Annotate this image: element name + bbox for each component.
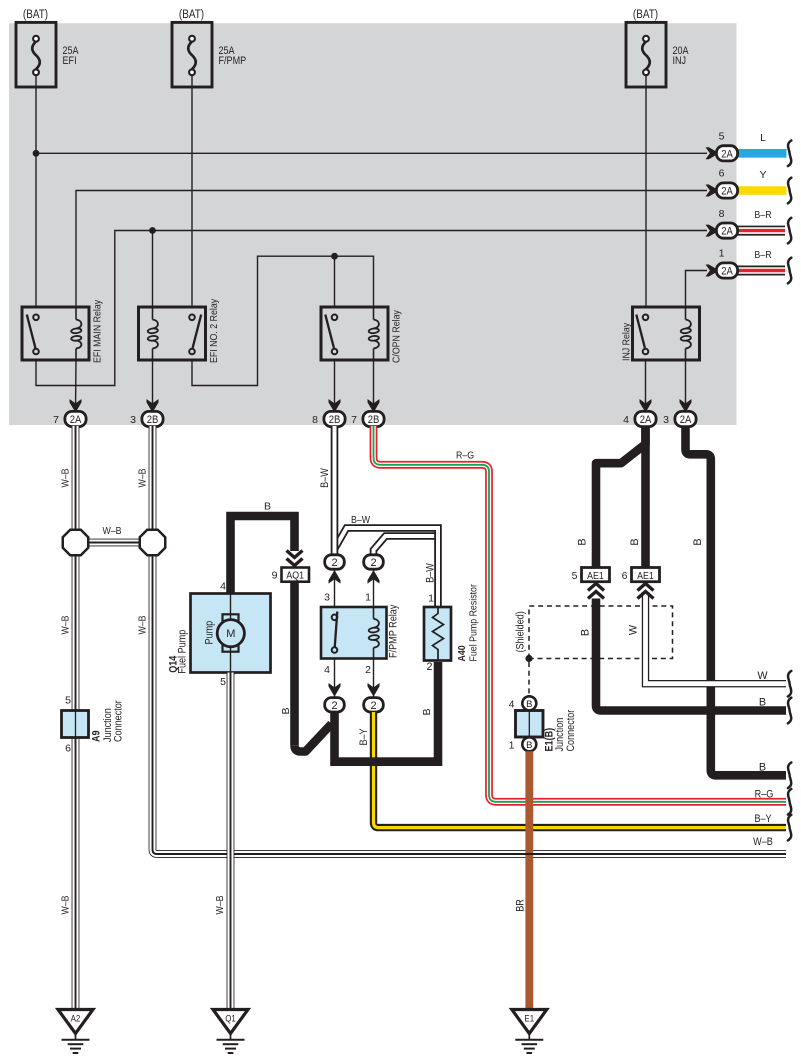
connector 2 (pin2) oval lower right [364,698,384,712]
node shield drain junction [525,655,532,662]
wire pin3 link [334,569,336,607]
connector 2A pin 3 [675,411,696,426]
svg-text:2: 2 [426,661,432,673]
connector 2A pin 5 arrow [706,147,720,159]
svg-text:2B: 2B [368,414,380,426]
connector 2A pin 1 [716,263,737,278]
svg-text:B–W: B–W [351,514,370,526]
wire W-B from 7 2A to ground A2 [72,426,80,1009]
svg-text:BR: BR [515,899,527,912]
svg-text:5: 5 [65,695,71,707]
svg-text:AE1: AE1 [637,570,654,582]
wire Y (yellow) to harness [737,186,787,195]
svg-text:L: L [760,132,766,144]
svg-text:AE1: AE1 [587,570,604,582]
wire B-R to harness (pin 8) [737,226,785,236]
octagon junction right [140,530,166,556]
connector 3 2A arrow [680,399,692,413]
svg-text:INJ: INJ [673,55,687,67]
connector 2A pin 6 arrow [706,185,720,197]
svg-text:W: W [757,670,768,682]
arrow 5 AE1 [588,584,604,591]
fuse 25A F/PMP (BAT) [191,75,193,87]
svg-text:INJ Relay: INJ Relay [621,322,633,361]
motor brush top [223,614,239,621]
connector 8 2B arrow [329,399,341,413]
svg-text:W: W [628,624,640,635]
fuse 25A EFI (BAT) [35,75,37,87]
wire W-B from 3 2B to right edge [153,426,787,854]
svg-text:5: 5 [572,570,578,582]
wire B-R to harness (pin 1) [737,266,785,276]
svg-text:2A: 2A [721,186,733,198]
svg-text:F/PMP: F/PMP [219,55,247,67]
component A40 Fuel Pump Resistor box [424,607,451,661]
svg-text:A9: A9 [90,730,102,742]
wire B bottom horizontal over B-Y [335,757,439,766]
svg-text:Pump: Pump [204,621,216,645]
svg-text:B: B [580,629,592,636]
svg-text:1: 1 [428,593,434,605]
svg-text:7: 7 [53,414,59,426]
svg-text:B: B [526,699,532,710]
connector E1(B) junction box [516,711,544,738]
motor brush bottom [223,645,239,652]
wire EFI MAIN relay coil to connector 6 2A [76,191,707,308]
wire B-W branch pin1 coil [374,536,437,557]
wire pin4 link [334,659,336,698]
relay EFI NO.2 coil [152,307,154,320]
fuse 20A INJ (BAT) [645,75,647,87]
svg-text:B: B [759,761,766,773]
connector 2A pin 4 [635,411,656,426]
continuation squiggle Y [788,178,791,204]
wire bus to connector 5 2A [36,152,707,154]
connector 4 2A arrow [640,399,652,413]
svg-text:3: 3 [130,414,136,426]
svg-text:AQ1: AQ1 [286,570,304,582]
svg-text:4: 4 [509,699,515,711]
svg-text:Q1: Q1 [225,1014,236,1025]
arrow 6 AE1 [638,584,654,591]
fuel pump internal lead bottom [230,647,232,673]
connector E1(B) pin 4 circle [522,696,536,710]
connector A9 internal wire [75,711,77,738]
svg-text:R–G: R–G [456,450,474,462]
svg-text:B–Y: B–Y [754,813,771,825]
svg-text:2A: 2A [680,414,692,426]
svg-text:4: 4 [220,581,226,593]
wire branch to C/OPN relay switch [334,256,336,307]
wire B from 3 2A to right edge [686,426,787,775]
wire B fuel pump feed via AQ1 [231,516,295,594]
arrow down pin4 [329,683,341,697]
svg-text:C/OPN Relay: C/OPN Relay [391,309,403,363]
wire B from 4 2A to 6 AE1 [641,426,650,568]
wire INJ switch to connector 4 2A [645,360,647,412]
connector 2A pin 8 arrow [706,225,720,237]
svg-text:4: 4 [623,414,629,426]
svg-text:B: B [629,538,641,545]
svg-text:EFI: EFI [63,55,77,67]
continuation squiggle W [788,671,791,697]
svg-text:4: 4 [324,664,330,676]
arrow down pin2 [368,683,380,697]
relay INJ Relay box [633,307,700,360]
svg-text:1: 1 [365,592,371,604]
arrow up pin3 [329,570,341,584]
svg-text:2A: 2A [721,266,733,278]
svg-text:Fuel Pump Resistor: Fuel Pump Resistor [468,584,480,662]
svg-text:EFI NO. 2 Relay: EFI NO. 2 Relay [208,298,220,363]
wire B-W branch to resistor pin 1 [335,528,439,606]
svg-text:A2: A2 [71,1014,81,1025]
svg-text:W–B: W–B [60,895,72,914]
wire B-W from 8 2B to F/PMP relay pin 3 [331,426,339,555]
svg-text:8: 8 [312,414,318,426]
svg-text:B–R: B–R [754,249,772,261]
svg-text:Connector: Connector [112,700,124,742]
svg-text:EFI MAIN Relay: EFI MAIN Relay [92,299,104,363]
svg-text:W–B: W–B [753,836,773,848]
wire INJ coil to connector 3 2A [685,360,687,412]
svg-text:A40: A40 [456,645,468,661]
continuation squiggle B low [788,763,791,789]
relay EFI MAIN switch contact [33,315,39,321]
relay INJ coil [685,307,687,320]
relay F/PMP switch contact [332,615,338,621]
ground A2 [58,1010,93,1034]
svg-text:B–W: B–W [319,467,331,487]
node junction at EFI NO.2 coil branch [149,227,156,234]
svg-text:W–B: W–B [214,895,226,914]
motor M circle [217,620,244,647]
svg-text:(BAT): (BAT) [633,9,658,21]
svg-text:6: 6 [622,570,628,582]
wire EFI fuse to EFI MAIN relay switch [35,87,37,307]
svg-text:2: 2 [331,557,337,569]
component Q14 Fuel Pump box [191,594,271,673]
connector A9 junction box [62,711,89,738]
svg-text:Fuel Pump: Fuel Pump [177,630,189,674]
node junction at C/OPN switch branch [331,253,338,260]
octagon junction left [63,530,89,556]
shield box (Shielded) [529,606,673,659]
relay EFI NO. 2 Relay box [139,307,206,360]
svg-text:F/PMP Relay: F/PMP Relay [388,604,400,658]
connector 2A pin 6 [716,183,737,198]
svg-text:2: 2 [370,557,376,569]
wire R-G from 7 2B to right edge [374,426,787,802]
svg-text:2B: 2B [147,414,159,426]
connector 3 2B arrow [147,399,159,413]
svg-text:2A: 2A [70,414,82,426]
relay EFI MAIN coil [75,307,77,320]
svg-text:5: 5 [719,131,725,143]
relay EFI NO.2 switch contact [189,315,195,321]
continuation squiggle B mid [788,698,791,724]
continuation squiggle B-R 8 [788,218,791,244]
svg-text:B: B [577,538,589,545]
wire B from 4 2A to 5 AE1 and right edge [596,426,646,568]
connector 2A pin 7 [65,411,86,426]
relay block gray panel [9,23,737,425]
svg-text:R–G: R–G [755,788,774,800]
svg-text:B–Y: B–Y [358,728,370,745]
connector 2 (pin1) oval upper right [364,555,384,569]
wire pin1 link [373,569,375,607]
connector 7 2A arrow [70,399,82,413]
svg-text:6: 6 [719,168,725,180]
svg-text:W–B: W–B [102,525,121,537]
svg-text:B: B [280,707,292,714]
svg-text:B: B [759,696,766,708]
connector 7 2B arrow [368,399,380,413]
wire EFI NO.2 coil to connector 3 2B [152,360,154,412]
svg-text:B: B [526,740,532,751]
wire B relay pin4 to resistor pin2 [335,662,439,762]
wire EFI NO.2 relay switch to C/OPN relay [192,256,374,385]
node junction at EFI fuse line [33,150,40,157]
relay C/OPN switch contact [332,315,338,321]
continuation squiggle L [788,141,791,167]
wire L (blue) to harness [737,149,787,158]
svg-text:(BAT): (BAT) [179,9,204,21]
svg-text:E1: E1 [524,1014,534,1025]
resistor zigzag [433,607,444,661]
wire W-B pump to ground Q1 [227,673,235,1010]
relay INJ switch contact [643,315,649,321]
continuation squiggle R-G [788,789,791,815]
wire shield drain dashed [528,662,530,695]
relay C/OPN Relay box [321,307,388,360]
wire C/OPN switch to connector 8 2B [334,360,336,412]
connector E1(B) pin 1 circle [522,737,536,751]
svg-text:1: 1 [509,740,515,752]
svg-text:B: B [421,708,433,715]
fuel pump internal lead top [230,594,232,621]
svg-text:1: 1 [719,248,725,260]
wire BR from E1(B) to ground E1 [525,751,533,1009]
connector AQ1 pin 9 box [282,568,310,582]
connector 2B pin 3 [142,411,163,426]
connector 2B pin 7 [363,411,384,426]
relay C/OPN coil [373,307,375,320]
wire INJ fuse to INJ relay switch [645,87,647,307]
svg-text:2B: 2B [329,414,341,426]
arrow up pin1 [368,570,380,584]
svg-text:Y: Y [759,169,766,181]
svg-text:B: B [692,538,704,545]
svg-text:7: 7 [351,414,357,426]
connector 2A pin 5 [716,146,737,161]
ground E1 [512,1010,547,1034]
svg-text:B–R: B–R [754,209,772,221]
connector 6 AE1 box [632,568,660,582]
svg-text:9: 9 [272,570,278,582]
svg-text:2A: 2A [721,226,733,238]
svg-text:6: 6 [65,743,71,755]
relay F/PMP Relay box [321,607,387,659]
wire INJ relay coil to connector 1 2A [686,271,708,308]
svg-text:3: 3 [324,592,330,604]
svg-text:M: M [226,628,235,640]
svg-text:W–B: W–B [60,615,72,634]
svg-text:(Shielded): (Shielded) [515,611,527,652]
connector 2A pin 1 arrow [706,265,720,277]
wire EFI MAIN coil to connector 7 2A [75,360,78,412]
svg-text:B–W: B–W [424,562,436,582]
svg-text:3: 3 [663,414,669,426]
connector E1(B) internal wire [528,711,530,738]
svg-text:2: 2 [370,700,376,712]
relay EFI MAIN Relay box [22,307,89,360]
svg-text:2: 2 [331,700,337,712]
wire W-B octagon link [76,539,153,547]
continuation squiggle B-Y [788,815,791,841]
svg-text:W–B: W–B [137,468,149,487]
wire C/OPN coil to connector 7 2B [373,360,375,412]
connector 2 (pin4) oval lower left [325,698,345,712]
connector 2A pin 8 [716,223,737,238]
svg-text:5: 5 [220,676,226,688]
connector 2 (pin3) oval upper left [325,555,345,569]
svg-text:2A: 2A [640,414,652,426]
svg-text:W–B: W–B [137,615,149,634]
svg-text:(BAT): (BAT) [23,9,48,21]
svg-text:8: 8 [719,208,725,220]
connector 2B pin 8 [324,411,345,426]
wire W from 6 AE1 to right edge [646,592,787,684]
svg-text:B: B [264,501,271,513]
wire EFI MAIN relay switch to connector 8 2A [36,231,707,386]
wire pin2 link [373,659,375,698]
wire B-Y from F/PMP pin 2 to right edge [374,712,787,828]
wire F/PMP fuse to EFI NO.2 relay switch [191,87,193,307]
ground Q1 [213,1010,248,1034]
wire branch to EFI NO.2 relay coil [152,231,154,308]
connector AQ1 arrow [287,551,303,558]
wire W-B middle stroke over BR [518,853,541,855]
svg-text:W–B: W–B [60,468,72,487]
svg-text:2: 2 [365,664,371,676]
svg-text:Connector: Connector [565,709,577,751]
connector 5 AE1 box [582,568,610,582]
relay F/PMP coil [373,607,375,619]
continuation squiggle B-R 1 [788,258,791,284]
svg-text:2A: 2A [721,148,733,160]
